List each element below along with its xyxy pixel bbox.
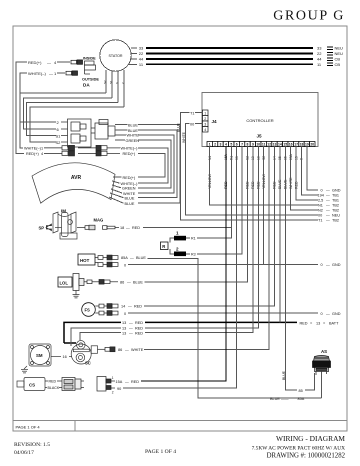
svg-text:RED: RED — [49, 379, 57, 383]
svg-text:WIRING - DIAGRAM: WIRING - DIAGRAM — [276, 434, 345, 443]
svg-text:04/06/17: 04/06/17 — [14, 450, 34, 456]
svg-text:5: 5 — [230, 143, 232, 147]
svg-text:RED: RED — [300, 321, 308, 325]
svg-text:0: 0 — [321, 189, 323, 193]
svg-text:14: 14 — [121, 305, 125, 309]
svg-text:TB1: TB1 — [332, 199, 339, 203]
svg-text:NEU: NEU — [335, 46, 344, 51]
svg-text:AS: AS — [321, 349, 327, 354]
svg-text:N2: N2 — [318, 209, 323, 213]
svg-text:SC: SC — [85, 361, 91, 366]
svg-text:J4: J4 — [212, 119, 218, 124]
svg-text:13: 13 — [122, 331, 126, 335]
svg-text:0: 0 — [124, 312, 126, 316]
svg-text:—: — — [125, 380, 129, 384]
svg-text:T1: T1 — [190, 111, 194, 115]
svg-text:44: 44 — [317, 57, 322, 62]
svg-text:NEU: NEU — [332, 214, 340, 218]
svg-text:WHITE(–): WHITE(–) — [121, 182, 139, 186]
svg-text:1: 1 — [54, 71, 57, 76]
svg-text:8: 8 — [247, 143, 249, 147]
svg-text:2,5: 2,5 — [318, 199, 323, 203]
svg-text:10: 10 — [256, 143, 260, 147]
svg-text:—: — — [326, 209, 330, 213]
svg-text:MAG: MAG — [94, 218, 104, 223]
svg-text:1: 1 — [209, 143, 211, 147]
svg-text:—: — — [129, 321, 133, 325]
svg-text:11: 11 — [139, 62, 144, 67]
svg-text:4: 4 — [41, 152, 43, 156]
svg-text:194: 194 — [318, 194, 324, 198]
svg-text:TB2: TB2 — [332, 209, 339, 213]
svg-text:4: 4 — [204, 128, 206, 132]
svg-text:RED: RED — [135, 321, 143, 325]
svg-text:LOL: LOL — [60, 280, 69, 285]
svg-text:13: 13 — [122, 327, 126, 331]
svg-text:14: 14 — [278, 143, 282, 147]
svg-text:TB1: TB1 — [332, 194, 339, 198]
svg-text:6: 6 — [236, 143, 238, 147]
svg-text:RED: RED — [135, 327, 143, 331]
svg-text:16: 16 — [289, 143, 293, 147]
svg-text:GREEN: GREEN — [126, 139, 140, 143]
svg-text:16: 16 — [63, 355, 67, 359]
svg-text:13: 13 — [273, 143, 277, 147]
svg-text:0: 0 — [321, 312, 323, 316]
svg-text:15A: 15A — [116, 380, 123, 384]
svg-text:00: 00 — [190, 122, 194, 126]
svg-text:N1: N1 — [318, 204, 323, 208]
svg-text:S1: S1 — [56, 134, 62, 139]
svg-text:BLUE: BLUE — [125, 202, 135, 206]
svg-text:S1: S1 — [109, 80, 113, 84]
svg-text:—: — — [326, 199, 330, 203]
svg-text:CS: CS — [29, 383, 35, 388]
svg-text:CB: CB — [335, 62, 341, 67]
svg-text:BATT: BATT — [329, 321, 339, 325]
svg-text:FS: FS — [85, 307, 91, 312]
svg-text:—: — — [326, 263, 330, 267]
svg-text:WHITE(–): WHITE(–) — [24, 147, 42, 151]
svg-text:18: 18 — [300, 143, 304, 147]
svg-text:86: 86 — [120, 280, 124, 284]
svg-text:BLUE: BLUE — [133, 280, 143, 284]
svg-text:1: 1 — [112, 376, 114, 380]
svg-text:WHITE: WHITE — [131, 348, 144, 352]
svg-text:86: 86 — [118, 348, 122, 352]
svg-text:—: — — [47, 60, 51, 65]
svg-text:1: 1 — [41, 147, 43, 151]
svg-text:44: 44 — [139, 57, 144, 62]
svg-text:4: 4 — [225, 143, 227, 147]
svg-text:DRAWING #: 10000021282: DRAWING #: 10000021282 — [267, 453, 346, 460]
svg-text:WHITE: WHITE — [123, 192, 136, 196]
svg-text:WHITE(–): WHITE(–) — [121, 147, 139, 151]
svg-text:00: 00 — [318, 214, 322, 218]
svg-text:=: = — [310, 321, 313, 325]
svg-text:CB: CB — [335, 57, 341, 62]
svg-text:3: 3 — [220, 143, 222, 147]
svg-text:BLUE: BLUE — [282, 370, 286, 380]
svg-text:TB2: TB2 — [332, 204, 339, 208]
svg-text:9: 9 — [252, 143, 254, 147]
svg-text:—: — — [127, 280, 131, 284]
svg-text:NEU: NEU — [335, 51, 344, 56]
svg-text:2: 2 — [112, 390, 114, 394]
svg-text:BLUE: BLUE — [136, 256, 146, 260]
svg-text:17: 17 — [294, 143, 298, 147]
svg-text:0: 0 — [321, 263, 323, 267]
svg-text:RED: RED — [131, 380, 139, 384]
svg-text:—: — — [326, 312, 330, 316]
svg-text:RED: RED — [132, 226, 140, 230]
svg-text:20: 20 — [310, 143, 314, 147]
svg-text:GND: GND — [332, 263, 341, 267]
svg-text:S2: S2 — [56, 140, 62, 145]
svg-text:—: — — [130, 256, 134, 260]
svg-text:18: 18 — [120, 226, 124, 230]
svg-text:22: 22 — [139, 51, 144, 56]
svg-text:REVISION: 1.5: REVISION: 1.5 — [14, 442, 50, 448]
svg-text:GROUP G: GROUP G — [273, 9, 345, 24]
svg-text:WHITE(–): WHITE(–) — [28, 71, 46, 76]
svg-text:T1: T1 — [318, 219, 322, 223]
svg-text:OUTSIDE: OUTSIDE — [82, 78, 99, 82]
svg-text:INSIDE: INSIDE — [83, 57, 96, 61]
svg-text:R1: R1 — [191, 237, 196, 241]
svg-text:RED(+): RED(+) — [123, 176, 136, 180]
svg-text:—: — — [326, 189, 330, 193]
svg-text:13: 13 — [122, 321, 126, 325]
svg-text:—: — — [326, 214, 330, 218]
svg-text:GND: GND — [332, 312, 341, 316]
svg-text:RED: RED — [134, 305, 142, 309]
svg-text:7.5KW AC POWER PACT 60HZ W/ AU: 7.5KW AC POWER PACT 60HZ W/ AUX — [252, 446, 346, 452]
svg-text:PAGE 1 OF 4: PAGE 1 OF 4 — [145, 449, 176, 455]
svg-text:RED(+): RED(+) — [28, 60, 42, 65]
svg-text:R3: R3 — [191, 252, 196, 256]
svg-text:PAGE 1 OF 4: PAGE 1 OF 4 — [16, 425, 41, 430]
svg-text:33: 33 — [317, 46, 322, 51]
svg-text:7: 7 — [241, 143, 243, 147]
svg-text:15: 15 — [283, 143, 287, 147]
svg-text:BLUE: BLUE — [270, 397, 280, 401]
svg-text:13: 13 — [316, 321, 320, 325]
svg-text:11: 11 — [262, 143, 266, 147]
svg-text:1: 1 — [204, 112, 206, 116]
svg-text:—: — — [129, 327, 133, 331]
svg-text:2: 2 — [204, 117, 206, 121]
svg-text:—: — — [326, 204, 330, 208]
svg-text:85A: 85A — [298, 397, 305, 401]
svg-text:BLUE: BLUE — [128, 129, 138, 133]
svg-text:WHITE: WHITE — [182, 131, 186, 143]
svg-text:BLUE: BLUE — [128, 123, 138, 127]
svg-text:—: — — [125, 348, 129, 352]
svg-text:—: — — [326, 194, 330, 198]
svg-text:0: 0 — [124, 263, 126, 267]
svg-text:R: R — [162, 244, 165, 249]
svg-text:19: 19 — [305, 143, 309, 147]
svg-text:3: 3 — [204, 123, 206, 127]
svg-text:—: — — [326, 219, 330, 223]
svg-text:1: 1 — [176, 231, 179, 236]
svg-text:BLUE: BLUE — [125, 197, 135, 201]
svg-text:2: 2 — [214, 143, 216, 147]
svg-text:—: — — [129, 331, 133, 335]
svg-text:DA: DA — [83, 83, 90, 88]
svg-text:85: 85 — [299, 389, 303, 393]
svg-text:CONTROLLER: CONTROLLER — [246, 118, 273, 123]
svg-text:SP: SP — [39, 225, 45, 230]
svg-text:TB2: TB2 — [332, 219, 339, 223]
svg-text:2: 2 — [176, 247, 179, 252]
svg-text:——: —— — [281, 397, 289, 401]
svg-text:RED(+): RED(+) — [123, 152, 136, 156]
svg-text:STATOR: STATOR — [109, 54, 123, 58]
svg-text:11: 11 — [317, 62, 322, 67]
svg-text:—: — — [126, 226, 130, 230]
svg-text:RED(+): RED(+) — [26, 152, 39, 156]
svg-text:BLUE: BLUE — [177, 122, 181, 132]
svg-text:S2: S2 — [103, 80, 107, 84]
svg-text:2: 2 — [57, 120, 60, 125]
svg-text:22: 22 — [317, 51, 322, 56]
svg-text:RED: RED — [135, 331, 143, 335]
svg-text:SM: SM — [36, 353, 43, 358]
svg-text:—: — — [49, 71, 53, 76]
svg-text:33: 33 — [139, 46, 144, 51]
svg-text:90: 90 — [117, 387, 121, 391]
svg-text:HOT: HOT — [80, 258, 90, 263]
svg-text:4: 4 — [54, 60, 57, 65]
svg-text:=: = — [323, 321, 326, 325]
svg-text:6: 6 — [57, 127, 60, 132]
svg-text:85A: 85A — [121, 256, 128, 260]
svg-text:12: 12 — [267, 143, 271, 147]
svg-text:—: — — [128, 305, 132, 309]
svg-text:WHITE: WHITE — [127, 134, 140, 138]
svg-text:GREEN: GREEN — [122, 187, 136, 191]
svg-text:GND: GND — [332, 189, 341, 193]
svg-text:BLACK: BLACK — [48, 386, 60, 390]
svg-text:J5: J5 — [256, 134, 262, 139]
svg-text:AVR: AVR — [71, 175, 82, 181]
